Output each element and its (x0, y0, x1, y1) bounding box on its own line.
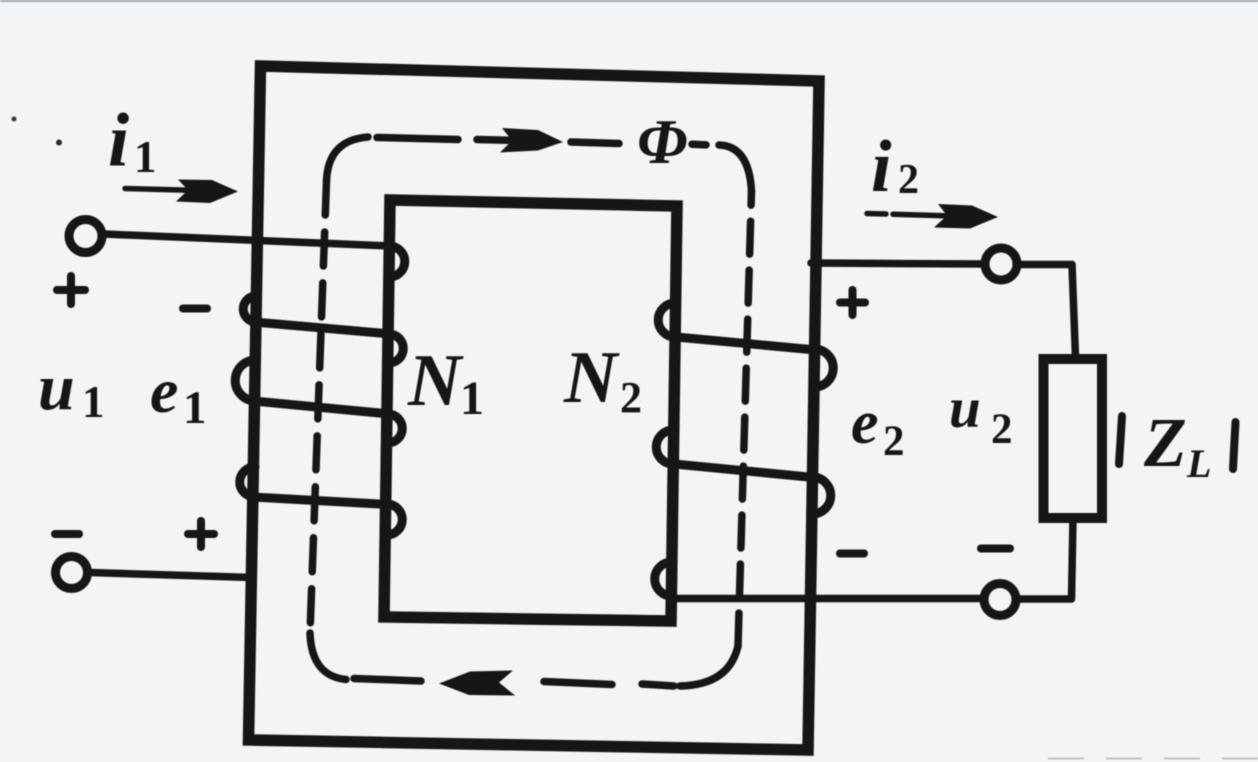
svg-text:i: i (108, 99, 129, 183)
svg-text:1: 1 (134, 132, 157, 182)
svg-text:1: 1 (183, 382, 207, 434)
svg-text:1: 1 (82, 377, 105, 427)
svg-text:2: 2 (991, 406, 1013, 453)
svg-text:2: 2 (883, 418, 905, 465)
svg-text:L: L (1186, 441, 1211, 486)
svg-text:2: 2 (898, 157, 919, 203)
svg-text:N: N (407, 340, 464, 422)
svg-text:1: 1 (460, 372, 484, 425)
svg-text:e: e (851, 389, 879, 457)
svg-text:Φ: Φ (637, 106, 688, 177)
svg-text:e: e (150, 355, 178, 426)
svg-text:Z: Z (1143, 405, 1187, 482)
svg-text:N: N (563, 337, 620, 419)
svg-text:2: 2 (620, 373, 642, 422)
svg-text:u: u (949, 377, 981, 440)
svg-text:i: i (871, 126, 892, 208)
svg-text:u: u (38, 351, 75, 424)
